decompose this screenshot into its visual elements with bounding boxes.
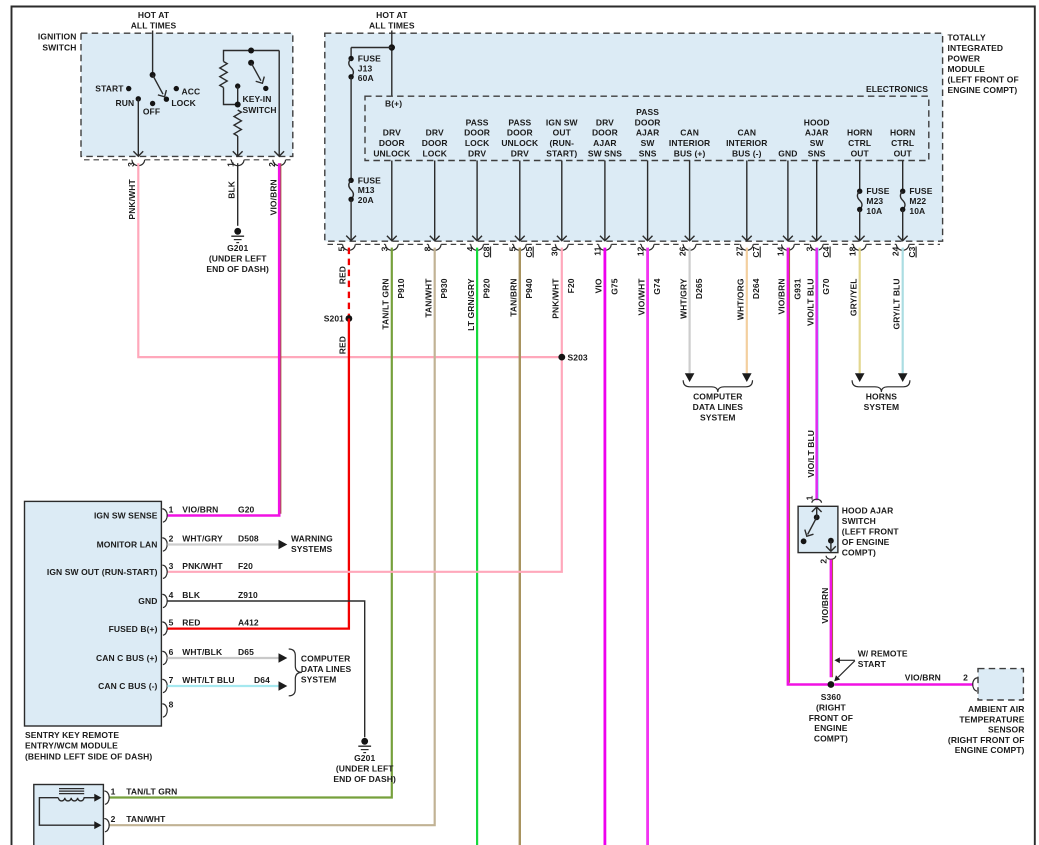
svg-text:D265: D265: [694, 278, 704, 299]
svg-text:(LEFT FRONT: (LEFT FRONT: [842, 527, 900, 537]
svg-text:START): START): [546, 149, 577, 159]
svg-text:P940: P940: [524, 278, 534, 298]
svg-text:B(+): B(+): [385, 99, 402, 109]
wire RED fused (dashed) pin 5 to splice S201: [348, 248, 350, 319]
svg-text:C5: C5: [524, 246, 534, 257]
svg-text:18: 18: [848, 246, 858, 256]
svg-text:7: 7: [169, 675, 174, 685]
wire key-in to pin 2: [278, 51, 280, 157]
svg-text:KEY-IN: KEY-IN: [243, 94, 272, 104]
svg-text:VIO/BRN: VIO/BRN: [777, 278, 787, 314]
svg-text:PNK/WHT: PNK/WHT: [127, 179, 137, 220]
svg-text:HOOD AJAR: HOOD AJAR: [842, 505, 894, 515]
svg-text:PASS: PASS: [466, 117, 489, 127]
wire VIO/LT BLU pin 3 to hood ajar switch: [815, 248, 818, 501]
brace computer data lines system (SKREEM): [289, 649, 302, 696]
svg-text:M22: M22: [909, 196, 926, 206]
svg-text:COMPT): COMPT): [842, 548, 876, 558]
sentry key antenna module box: [34, 785, 104, 845]
antenna pin 2 connector: [104, 819, 109, 832]
svg-text:ACC: ACC: [182, 86, 201, 96]
svg-text:SENTRY KEY REMOTE: SENTRY KEY REMOTE: [25, 730, 119, 740]
wire BLK ignition pin 1 to ground: [237, 163, 239, 226]
svg-text:GRY/LT BLU: GRY/LT BLU: [891, 278, 901, 329]
svg-text:VIO/LT BLU: VIO/LT BLU: [806, 430, 816, 478]
svg-text:M13: M13: [358, 185, 375, 195]
fuse M22 10A: [900, 189, 905, 194]
hood ajar switch contacts: [814, 514, 820, 520]
svg-text:COMPUTER: COMPUTER: [301, 654, 350, 664]
svg-text:(RUN-: (RUN-: [550, 138, 575, 148]
wire WHT/GRY pin 26 to computer data lines: [688, 248, 690, 374]
svg-text:HORNS: HORNS: [866, 391, 897, 401]
svg-text:24: 24: [891, 246, 901, 256]
svg-text:4: 4: [465, 246, 475, 251]
svg-text:DOOR: DOOR: [422, 138, 448, 148]
wire LT GRN/GRY pin 4: [476, 248, 478, 845]
TIPM pin 18: [853, 244, 866, 250]
svg-text:3: 3: [126, 162, 136, 167]
svg-text:LT GRN/GRY: LT GRN/GRY: [466, 278, 476, 331]
svg-text:GRY/YEL: GRY/YEL: [848, 278, 858, 316]
wire VIO/BRN pin 14 to splice S360: [788, 248, 828, 685]
wire antenna coil to pin 2: [39, 798, 95, 826]
wire fuse M13 to TIPM pin 5: [350, 199, 352, 240]
svg-text:ENGINE COMPT): ENGINE COMPT): [955, 745, 1025, 755]
svg-text:AMBIENT AIR: AMBIENT AIR: [968, 704, 1025, 714]
svg-text:2: 2: [818, 559, 828, 564]
svg-text:OF ENGINE: OF ENGINE: [842, 537, 890, 547]
svg-text:1: 1: [804, 495, 814, 500]
svg-text:COMPT): COMPT): [814, 734, 848, 744]
svg-text:(UNDER LEFT: (UNDER LEFT: [209, 254, 267, 264]
svg-text:(RIGHT FRONT OF: (RIGHT FRONT OF: [948, 735, 1025, 745]
svg-text:2: 2: [267, 162, 277, 167]
svg-text:CTRL: CTRL: [891, 138, 914, 148]
svg-text:OUT: OUT: [894, 149, 913, 159]
svg-text:MODULE: MODULE: [948, 64, 986, 74]
svg-text:2: 2: [111, 814, 116, 824]
svg-text:DRV: DRV: [426, 128, 444, 138]
svg-text:D65: D65: [238, 647, 254, 657]
svg-text:DOOR: DOOR: [379, 138, 405, 148]
wire RUN contact to pin 3: [137, 99, 139, 156]
wire antenna coil to pin 1: [84, 797, 95, 799]
wire VIO pin 11: [604, 248, 607, 845]
svg-text:ELECTRONICS: ELECTRONICS: [866, 84, 928, 94]
svg-text:LOCK: LOCK: [171, 98, 196, 108]
svg-text:CAN: CAN: [737, 128, 756, 138]
fuse M13 20A: [348, 178, 353, 183]
wire resistor to junction: [224, 88, 238, 105]
TIPM pin 30: [556, 244, 569, 250]
TIPM pin 27 connector C7: [740, 244, 753, 250]
svg-text:VIO/WHT: VIO/WHT: [636, 278, 646, 316]
SKREEM pin 2 MONITOR LAN: [162, 538, 167, 551]
TIPM pin 3: [386, 244, 399, 250]
key-in switch contact: [235, 83, 240, 88]
svg-text:SW: SW: [641, 138, 656, 148]
svg-text:8: 8: [169, 700, 174, 710]
svg-text:VIO: VIO: [594, 278, 604, 293]
svg-text:IGN SW OUT (RUN-START): IGN SW OUT (RUN-START): [47, 567, 158, 577]
svg-text:UNLOCK: UNLOCK: [373, 149, 411, 159]
svg-text:AJAR: AJAR: [805, 128, 829, 138]
TIPM pin 12: [641, 244, 654, 250]
ignition switch module box: [81, 33, 293, 156]
svg-text:DOOR: DOOR: [592, 128, 618, 138]
svg-text:10A: 10A: [866, 206, 882, 216]
svg-text:HOOD: HOOD: [804, 117, 830, 127]
svg-text:D64: D64: [254, 675, 270, 685]
svg-text:S201: S201: [324, 314, 344, 324]
svg-text:TAN/BRN: TAN/BRN: [509, 278, 519, 316]
svg-text:G75: G75: [609, 278, 619, 295]
resistor key-in lower: [234, 110, 241, 136]
svg-text:MONITOR LAN: MONITOR LAN: [97, 540, 158, 550]
svg-text:BLK: BLK: [182, 590, 201, 600]
svg-text:5: 5: [169, 618, 174, 628]
fuse J13 60A: [348, 56, 353, 61]
svg-text:WHT/LT BLU: WHT/LT BLU: [182, 675, 234, 685]
svg-text:20A: 20A: [358, 195, 374, 205]
svg-text:12: 12: [635, 246, 645, 256]
svg-text:Z910: Z910: [238, 590, 258, 600]
svg-text:BUS (+): BUS (+): [674, 149, 706, 159]
svg-text:G931: G931: [792, 278, 802, 299]
TIPM connector row: [328, 243, 343, 245]
svg-text:3: 3: [805, 246, 815, 251]
svg-text:TAN/WHT: TAN/WHT: [423, 278, 433, 318]
contact LOCK: [164, 97, 169, 102]
wire hot feed into TIPM / B(+): [391, 31, 393, 97]
svg-text:D508: D508: [238, 534, 259, 544]
svg-text:WHT/ORG: WHT/ORG: [736, 278, 746, 320]
wire TAN/BRN pin 5: [519, 248, 521, 845]
totally integrated power module box: [325, 33, 943, 241]
wire VIO/BRN ignition pin 2 to SKREEM pin 1: [167, 163, 279, 515]
svg-text:PNK/WHT: PNK/WHT: [182, 561, 223, 571]
svg-text:HORN: HORN: [847, 128, 872, 138]
svg-text:LOCK: LOCK: [465, 138, 490, 148]
svg-text:DRV: DRV: [511, 149, 529, 159]
svg-text:G201: G201: [227, 243, 248, 253]
svg-text:FUSE: FUSE: [909, 186, 932, 196]
svg-text:10A: 10A: [909, 206, 925, 216]
resistor key-in upper: [220, 62, 227, 88]
TIPM pin 8: [428, 244, 441, 250]
svg-text:SWITCH: SWITCH: [42, 42, 76, 52]
TIPM pin 5: [343, 244, 356, 250]
svg-text:SW SNS: SW SNS: [588, 149, 622, 159]
svg-text:VIO/LT BLU: VIO/LT BLU: [805, 278, 815, 326]
svg-text:J13: J13: [358, 63, 373, 73]
svg-text:SNS: SNS: [639, 149, 657, 159]
SKREEM pin 7 CAN C BUS (-): [162, 679, 167, 692]
svg-text:ENGINE COMPT): ENGINE COMPT): [948, 85, 1018, 95]
wire BLK gnd to ground G201: [167, 601, 364, 737]
wire hot feed into ignition switch: [152, 31, 154, 75]
svg-text:WHT/BLK: WHT/BLK: [182, 647, 223, 657]
fuse M23 10A: [857, 189, 862, 194]
ambient sensor pin 2 connector: [973, 678, 978, 691]
svg-text:(LEFT FRONT OF: (LEFT FRONT OF: [948, 75, 1019, 85]
svg-text:FUSE: FUSE: [358, 175, 381, 185]
svg-text:1: 1: [225, 162, 235, 167]
svg-text:RED: RED: [338, 266, 348, 284]
wire TAN/WHT pin 8 to antenna pin 2: [109, 248, 435, 826]
TIPM pin 14: [782, 244, 795, 250]
hood ajar switch box: [798, 506, 838, 552]
svg-text:11: 11: [593, 246, 603, 255]
svg-text:2: 2: [169, 534, 174, 544]
wire resistor to pin 1: [237, 136, 239, 156]
svg-text:G20: G20: [238, 505, 255, 515]
svg-text:HORN: HORN: [890, 128, 915, 138]
svg-text:VIO/BRN: VIO/BRN: [182, 505, 218, 515]
wire GRY/YEL pin 18 to horns system: [859, 248, 861, 374]
TIPM pin 11: [599, 244, 612, 250]
SKREEM pin 3 IGN SW OUT (RUN-START): [162, 565, 167, 578]
svg-text:FUSE: FUSE: [358, 54, 381, 64]
splice S360: [828, 681, 835, 688]
svg-text:OUT: OUT: [851, 149, 870, 159]
svg-text:1: 1: [111, 787, 116, 797]
SKREEM pin 5 FUSED B(+): [162, 622, 167, 635]
svg-text:(BEHIND LEFT SIDE OF DASH): (BEHIND LEFT SIDE OF DASH): [25, 751, 152, 761]
svg-text:DATA LINES: DATA LINES: [301, 664, 352, 674]
splice S203: [558, 354, 565, 361]
TIPM pin 5 connector C5: [514, 244, 527, 250]
svg-text:5: 5: [508, 246, 518, 251]
svg-text:(UNDER LEFT: (UNDER LEFT: [336, 764, 394, 774]
svg-text:WHT/GRY: WHT/GRY: [182, 534, 223, 544]
svg-text:OUT: OUT: [553, 128, 572, 138]
svg-text:SENSOR: SENSOR: [988, 725, 1025, 735]
svg-text:6: 6: [169, 647, 174, 657]
sentry key remote entry module box: [25, 501, 162, 726]
svg-text:FUSED B(+): FUSED B(+): [109, 624, 158, 634]
svg-text:LOCK: LOCK: [422, 149, 447, 159]
svg-text:UNLOCK: UNLOCK: [501, 138, 539, 148]
svg-text:CAN C BUS (+): CAN C BUS (+): [96, 653, 158, 663]
svg-text:ENTRY/WCM MODULE: ENTRY/WCM MODULE: [25, 741, 118, 751]
wire PNK/WHT pin 30 through S203 to SKREEM pin 3: [167, 248, 562, 572]
wire WHT/GRY monitor lan to warning systems: [167, 543, 278, 545]
svg-text:G70: G70: [821, 278, 831, 295]
svg-text:26: 26: [677, 246, 687, 256]
electronics inner module box: [365, 96, 929, 160]
ground G201 (SKREEM): [361, 738, 368, 745]
svg-text:WARNING: WARNING: [291, 534, 333, 544]
wire WHT/LT BLU can c bus- to computer data lines: [167, 685, 278, 687]
svg-text:IGN SW SENSE: IGN SW SENSE: [94, 511, 158, 521]
ground G201 (ignition): [234, 228, 241, 235]
wire PNK/WHT from ignition pin 3 to splice S203: [138, 163, 562, 357]
svg-text:TAN/LT GRN: TAN/LT GRN: [126, 787, 177, 797]
wire WHT/BLK can c bus+ to computer data lines: [167, 657, 278, 659]
contact RUN: [136, 96, 141, 101]
svg-text:HOT AT: HOT AT: [376, 10, 408, 20]
wire GRY/LT BLU pin 24 to horns system: [902, 248, 904, 374]
svg-text:P910: P910: [396, 278, 406, 298]
wire RED splice S201 to SKREEM FUSED B+: [167, 319, 349, 629]
SKREEM pin 6 CAN C BUS (+): [162, 651, 167, 664]
svg-text:DOOR: DOOR: [635, 117, 661, 127]
SKREEM pin 1 IGN SW SENSE: [162, 509, 167, 522]
TIPM pin 24 connector C3: [896, 244, 909, 250]
svg-text:COMPUTER: COMPUTER: [693, 391, 742, 401]
svg-text:DRV: DRV: [383, 128, 401, 138]
svg-text:C7: C7: [751, 246, 761, 257]
svg-text:TEMPERATURE: TEMPERATURE: [959, 714, 1024, 724]
svg-text:CAN: CAN: [680, 128, 699, 138]
svg-text:W/ REMOTE: W/ REMOTE: [858, 648, 908, 658]
svg-text:4: 4: [169, 590, 174, 600]
wire branch to fuse J13: [351, 47, 392, 49]
contact START: [126, 86, 131, 91]
svg-text:P930: P930: [439, 278, 449, 298]
svg-text:WHT/GRY: WHT/GRY: [678, 278, 688, 319]
svg-text:DOOR: DOOR: [464, 128, 490, 138]
ignition switch rotary arm: [150, 72, 156, 78]
svg-text:INTERIOR: INTERIOR: [669, 138, 710, 148]
brace computer data lines system: [683, 380, 752, 392]
svg-text:P920: P920: [482, 278, 492, 298]
svg-text:INTEGRATED: INTEGRATED: [948, 43, 1004, 53]
svg-text:PNK/WHT: PNK/WHT: [551, 278, 561, 319]
antenna pin 1 connector: [104, 791, 109, 804]
svg-text:RED: RED: [182, 618, 200, 628]
svg-text:G201: G201: [354, 753, 375, 763]
wire VIO/BRN hood ajar switch to S360: [830, 560, 833, 678]
svg-text:ENGINE: ENGINE: [814, 723, 847, 733]
svg-text:INTERIOR: INTERIOR: [726, 138, 767, 148]
svg-text:START: START: [858, 659, 887, 669]
svg-text:PASS: PASS: [508, 117, 531, 127]
svg-text:HOT AT: HOT AT: [138, 10, 170, 20]
svg-text:GND: GND: [778, 149, 797, 159]
svg-text:END OF DASH): END OF DASH): [333, 774, 396, 784]
wire VIO/BRN S360 to ambient air temperature sensor: [834, 683, 973, 686]
svg-text:F20: F20: [238, 561, 253, 571]
SKREEM pin 8: [162, 704, 167, 717]
wire VIO/WHT pin 12: [646, 248, 649, 845]
svg-text:14: 14: [776, 246, 786, 256]
svg-text:S360: S360: [821, 692, 841, 702]
svg-text:VIO/BRN: VIO/BRN: [905, 672, 941, 682]
key-in switch arm: [248, 60, 254, 66]
svg-text:DRV: DRV: [596, 117, 614, 127]
svg-text:3: 3: [380, 246, 390, 251]
svg-text:START: START: [95, 84, 124, 94]
svg-text:30: 30: [550, 246, 560, 256]
svg-text:SW: SW: [810, 138, 825, 148]
splice S201: [346, 315, 353, 322]
svg-text:SWITCH: SWITCH: [842, 516, 876, 526]
svg-text:END OF DASH): END OF DASH): [206, 264, 269, 274]
svg-text:5: 5: [337, 246, 347, 251]
svg-text:TOTALLY: TOTALLY: [948, 33, 987, 43]
svg-text:27: 27: [735, 246, 745, 256]
svg-text:SYSTEMS: SYSTEMS: [291, 544, 333, 554]
svg-text:GND: GND: [138, 596, 157, 606]
contact ACC: [174, 86, 179, 91]
svg-text:PASS: PASS: [636, 107, 659, 117]
svg-text:DATA LINES: DATA LINES: [693, 402, 744, 412]
svg-text:ALL TIMES: ALL TIMES: [131, 20, 177, 30]
antenna coil L1: [59, 788, 84, 790]
svg-text:DRV: DRV: [468, 149, 486, 159]
svg-text:FUSE: FUSE: [866, 186, 889, 196]
TIPM pin 26: [683, 244, 696, 250]
svg-text:G74: G74: [652, 278, 662, 295]
hood ajar switch pin 1 connector: [812, 499, 822, 503]
svg-text:ALL TIMES: ALL TIMES: [369, 20, 415, 30]
svg-text:RUN: RUN: [115, 98, 134, 108]
svg-text:60A: 60A: [358, 73, 374, 83]
svg-text:VIO/BRN: VIO/BRN: [820, 588, 830, 624]
svg-text:SWITCH: SWITCH: [243, 105, 277, 115]
svg-text:AJAR: AJAR: [636, 128, 660, 138]
svg-text:FRONT OF: FRONT OF: [809, 713, 853, 723]
wire fuse J13 to fuse M13: [350, 77, 352, 181]
wire TAN/LT GRN pin 3 to antenna pin 1: [109, 248, 392, 798]
svg-text:CTRL: CTRL: [848, 138, 871, 148]
svg-text:SNS: SNS: [808, 149, 826, 159]
ignition connector row: [84, 159, 132, 161]
hood ajar switch pin 2 connector: [826, 556, 836, 560]
svg-text:F20: F20: [566, 278, 576, 293]
svg-text:AJAR: AJAR: [593, 138, 617, 148]
svg-text:D264: D264: [751, 278, 761, 299]
svg-text:RED: RED: [338, 336, 348, 354]
svg-text:OFF: OFF: [143, 107, 160, 117]
svg-text:8: 8: [423, 246, 433, 251]
TIPM pin 3 connector C4: [810, 244, 823, 250]
svg-text:IGN SW: IGN SW: [546, 117, 579, 127]
svg-text:POWER: POWER: [948, 54, 981, 64]
TIPM pin 4 connector C8: [471, 244, 484, 250]
svg-text:DOOR: DOOR: [507, 128, 533, 138]
svg-text:(RIGHT: (RIGHT: [816, 702, 847, 712]
svg-text:SYSTEM: SYSTEM: [864, 402, 900, 412]
svg-text:2: 2: [963, 672, 968, 682]
svg-text:VIO/BRN: VIO/BRN: [268, 179, 278, 215]
svg-text:SYSTEM: SYSTEM: [700, 412, 736, 422]
svg-text:SYSTEM: SYSTEM: [301, 675, 337, 685]
svg-text:A412: A412: [238, 618, 259, 628]
svg-text:TAN/WHT: TAN/WHT: [126, 814, 166, 824]
svg-text:TAN/LT GRN: TAN/LT GRN: [381, 278, 391, 329]
svg-text:M23: M23: [866, 196, 883, 206]
svg-text:IGNITION: IGNITION: [38, 32, 77, 42]
SKREEM pin 4 GND: [162, 594, 167, 607]
svg-text:BLK: BLK: [226, 180, 236, 199]
brace horns system: [852, 380, 910, 392]
svg-text:CAN C BUS (-): CAN C BUS (-): [98, 681, 157, 691]
svg-text:1: 1: [169, 505, 174, 515]
svg-text:3: 3: [169, 561, 174, 571]
svg-text:S203: S203: [568, 352, 588, 362]
wire WHT/ORG pin 27 to computer data lines: [746, 248, 748, 374]
contact OFF: [150, 101, 155, 106]
key-in switch feed wire: [224, 51, 280, 62]
ambient air temperature sensor box: [978, 669, 1023, 700]
svg-text:BUS (-): BUS (-): [732, 149, 762, 159]
